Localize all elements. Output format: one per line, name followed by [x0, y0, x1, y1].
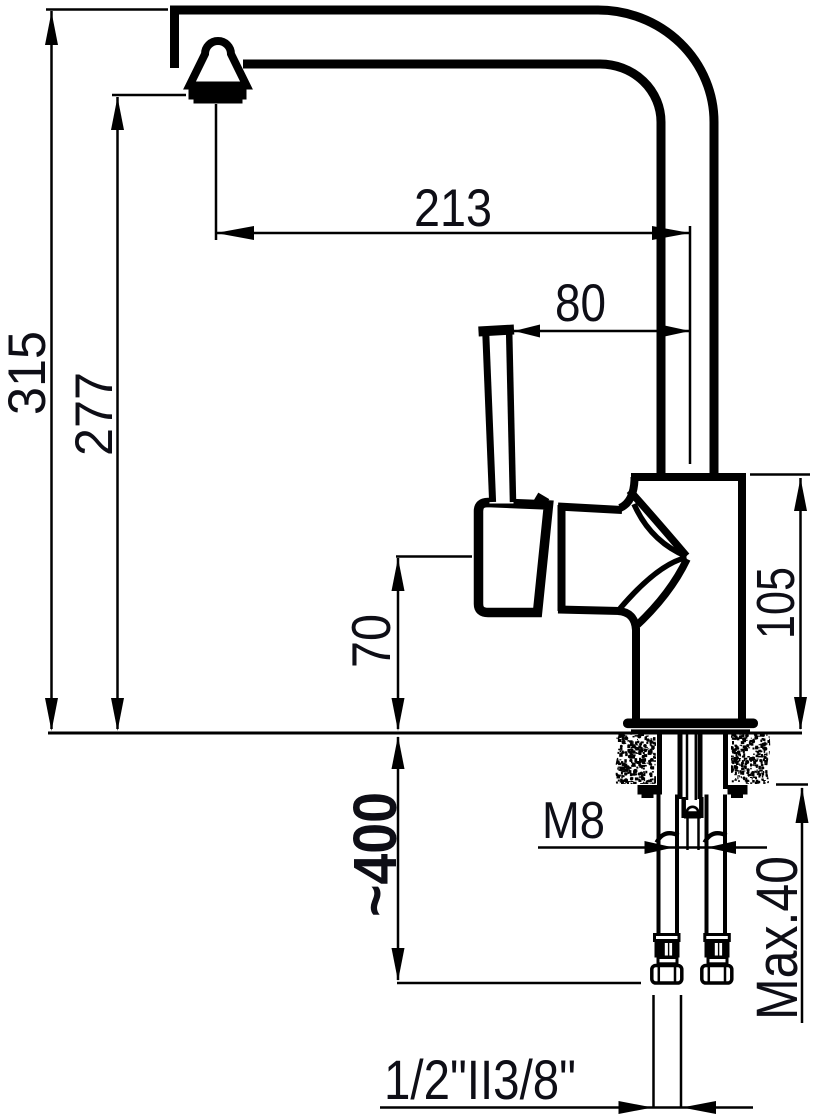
M8 threaded stud left bar: [678, 730, 683, 799]
supply hose left outer wall: [657, 795, 661, 934]
body neck curve top: [620, 477, 635, 508]
arrow 315 top: [45, 12, 58, 45]
hose connector right collar: [705, 935, 730, 941]
wire counter top line: [48, 732, 802, 735]
wire extension line below left connector left: [652, 995, 655, 1108]
wire dimension line 213 horizontal: [216, 232, 690, 235]
arrow 80 right: [660, 325, 690, 338]
flange gasket line: [631, 729, 750, 732]
wire dimension line ~400 vertical: [397, 737, 400, 980]
svg-text:80: 80: [555, 274, 606, 333]
hose connector left ribbed block: [655, 941, 680, 958]
hose connector left band: [658, 958, 677, 964]
M8 threaded stud right bar: [698, 730, 703, 799]
cartridge cover bottom edge: [558, 610, 620, 612]
arrow M8 right: [707, 841, 736, 854]
wire extension line 105 top: [750, 473, 810, 476]
mounting flange: [623, 719, 758, 729]
cone fan upper inner line: [634, 504, 687, 557]
svg-text:315: 315: [0, 331, 57, 415]
hose bend arc right: [705, 833, 727, 842]
wire extension line 70 top: [396, 555, 472, 558]
arrow 277 top: [111, 97, 124, 130]
wire extension line from aerator down (213 left): [215, 104, 218, 240]
lever handle right edge: [509, 334, 513, 502]
arrow Max.40 top: [796, 787, 809, 823]
body left edge: [632, 628, 640, 721]
arrow 70 bottom: [392, 698, 405, 731]
hose connector right band: [708, 958, 727, 964]
cone fan lower outer line: [634, 559, 687, 628]
lever handle bar white fill: [483, 333, 514, 504]
arrow 105 bottom: [794, 697, 807, 730]
arrow bottom dim left: [619, 1101, 653, 1114]
svg-text:~400: ~400: [341, 792, 409, 917]
wire extension line right x690: [689, 226, 692, 464]
lever handle top cap: [479, 330, 515, 332]
supply hose right inner wall: [705, 795, 709, 934]
arrow 105 top: [794, 478, 807, 511]
wire extension line for 277 (aerator outlet): [112, 94, 186, 97]
wire extension line top for 315: [46, 8, 168, 11]
countertop granite left block: [615, 733, 659, 787]
aerator outlet block: [189, 84, 247, 104]
M8 stud inner line left: [686, 732, 689, 800]
faucet shank right wall: [723, 730, 728, 789]
arrow bottom dim right: [682, 1101, 716, 1114]
supply hose right outer wall: [723, 795, 727, 934]
body corner curve bottom: [618, 611, 636, 630]
cartridge cover left edge: [558, 505, 566, 611]
svg-text:70: 70: [340, 614, 402, 668]
M8 nut right bar: [699, 797, 704, 818]
svg-text:Max.40: Max.40: [745, 856, 810, 1020]
hose connector right rib slots: [715, 943, 718, 956]
arrow 315 bottom: [45, 698, 58, 731]
wire extension line Max.40 top: [776, 783, 808, 786]
wire dimension line 277 vertical: [116, 97, 119, 729]
M8 stud inner line right: [695, 732, 698, 800]
wire dimension line 315 vertical: [50, 11, 53, 729]
M8 nut bottom bar: [684, 813, 701, 819]
wire dimension line 70 vertical: [397, 558, 400, 729]
arrow M8 left: [645, 841, 674, 854]
wire dimension line 80 horizontal: [514, 330, 690, 333]
spout left end cap: [170, 6, 179, 68]
arrow 80 left: [514, 325, 540, 338]
handle base housing: [479, 503, 549, 613]
hose connector left rib slots: [665, 943, 668, 956]
svg-text:277: 277: [65, 372, 124, 456]
wire extension line below left connector right: [680, 995, 683, 1108]
arrow ~400 bottom: [392, 948, 405, 981]
countertop granite right block: [730, 733, 773, 787]
spout tube outer outline: [170, 10, 714, 476]
wire extension line ~400 bottom: [397, 982, 641, 985]
supply hose left inner wall: [675, 795, 679, 934]
body right edge: [738, 477, 746, 721]
hose connector left hex nut: [652, 966, 682, 984]
mounting washer right: [728, 785, 748, 798]
lever handle left edge: [486, 334, 493, 502]
M8 stud tail line left: [686, 819, 689, 851]
hose bend arc left: [657, 833, 679, 842]
cone fan upper outer line: [630, 491, 687, 557]
handle base slant cap top: [536, 497, 547, 504]
M8 stud tail line right: [697, 819, 700, 851]
wire dimension line 105 vertical: [799, 478, 802, 729]
body top line: [631, 473, 746, 481]
svg-text:213: 213: [414, 179, 492, 238]
arrow 70 top: [392, 558, 405, 591]
hose connector left collar: [655, 935, 680, 941]
hose connector right hex facets: [709, 966, 725, 983]
wire dimension line Max.40 vertical: [801, 788, 804, 1023]
arrow 213 left: [216, 226, 254, 240]
hose connector right hex nut: [702, 966, 732, 984]
M8 nut dome: [687, 807, 698, 813]
hose connector right ribbed block: [705, 941, 730, 958]
M8 nut left bar: [681, 797, 686, 818]
spout tube inner outline: [243, 64, 661, 476]
mounting washer left: [638, 785, 663, 798]
arrow 213 right: [652, 226, 690, 240]
wire dimension line 1/2"-3/8" bottom: [380, 1106, 753, 1109]
arrow 277 bottom: [111, 698, 124, 731]
hose connector left hex facets: [659, 966, 675, 983]
svg-text:105: 105: [746, 567, 806, 639]
svg-text:M8: M8: [542, 792, 605, 850]
svg-text:1/2"II3/8": 1/2"II3/8": [384, 1048, 576, 1111]
cone fan lower inner line: [620, 558, 687, 609]
aerator housing pentagon: [190, 41, 247, 86]
faucet shank left wall: [657, 730, 662, 789]
wire dimension line M8 horizontal: [538, 846, 767, 849]
cartridge cover top edge: [558, 507, 622, 511]
arrow ~400 top: [392, 736, 405, 769]
